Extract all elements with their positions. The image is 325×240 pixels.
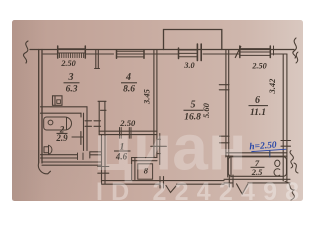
vent circle in room 7: [275, 160, 280, 166]
right outer wall: [283, 54, 287, 181]
svg-text:2.9: 2.9: [55, 133, 68, 143]
hall left wall: [102, 135, 106, 184]
svg-text:2.5: 2.5: [251, 167, 263, 177]
entrance arc bottom-left: [38, 164, 50, 174]
top outer wall lower line segments: [43, 53, 287, 55]
svg-text:5: 5: [191, 100, 196, 111]
svg-text:2.50: 2.50: [60, 59, 75, 68]
room 5 label 5/16.8: [184, 100, 204, 123]
partition room5/room6: [226, 50, 229, 158]
door ticks bathroom-hall: [85, 121, 101, 127]
blue note h=2.50: [249, 140, 287, 159]
top outer wall upper line: [30, 49, 294, 51]
left outer wall: [39, 50, 42, 164]
bathroom bottom wall: [41, 155, 78, 158]
bathtub: [44, 117, 72, 130]
vent square in room 3: [53, 96, 63, 106]
break squiggle left end of top wall: [23, 41, 28, 63]
closet 8 left wall: [132, 158, 135, 181]
outer lower-left edge wall: [42, 162, 102, 165]
svg-text:11.1: 11.1: [250, 108, 266, 118]
door jambs room4-hall: [120, 128, 132, 139]
window W6 (room 6): [240, 46, 274, 58]
bottom outer wall left segment: [102, 181, 225, 185]
svg-text:3.0: 3.0: [183, 61, 194, 70]
window W4 (room 4): [117, 50, 145, 58]
room 3 label 3/6.3: [64, 72, 80, 95]
svg-text:3: 3: [68, 72, 74, 83]
svg-text:3.42: 3.42: [267, 78, 277, 95]
entrance door swing flap: [166, 186, 176, 193]
room 6 bottom wall: [226, 153, 287, 156]
room 6 label 6/11.1: [249, 95, 269, 118]
svg-text:8.6: 8.6: [123, 85, 135, 95]
svg-text:6.3: 6.3: [66, 85, 78, 95]
door swing flap bottom right: [237, 184, 248, 194]
bottom right corner squiggle: [285, 182, 294, 201]
partition lower / hall top-left wall: [98, 101, 106, 134]
left edge shading of photo: [12, 20, 46, 201]
wall room3 bottom / bathroom top: [41, 107, 88, 113]
svg-text:3.45: 3.45: [142, 88, 152, 105]
door jambs bottom right: [229, 175, 233, 187]
svg-text:6: 6: [255, 95, 260, 106]
window W3 (room 3): [58, 46, 86, 58]
svg-text:2.50: 2.50: [251, 61, 266, 70]
photo of plan (pink paper): [12, 20, 303, 201]
svg-text:4: 4: [125, 72, 131, 83]
bathroom door leaf: [72, 132, 84, 145]
bathroom door jambs bottom: [78, 153, 84, 160]
room 7 label 7/2.5: [251, 158, 265, 177]
room 4 label 4/8.6: [121, 72, 137, 95]
room 2 label 2/2.9: [55, 124, 68, 143]
partition room4/room5 and corridor right wall: [154, 50, 157, 158]
right edge squiggle lower: [290, 151, 293, 169]
door frame corridor-room5: [157, 139, 161, 153]
svg-text:циан: циан: [94, 112, 247, 184]
door ticks room5/room6 upper: [219, 85, 229, 90]
partition room3/room4 upper: [95, 50, 100, 69]
room 7 left wall: [228, 156, 231, 177]
room 4 bottom wall: [99, 131, 157, 134]
watermark cian: [94, 112, 308, 207]
door ticks hall left wall: [98, 167, 109, 174]
right edge squiggle mid: [296, 52, 298, 63]
room 1 label 1/4.6: [114, 143, 131, 162]
door ticks room5/room6 lower: [220, 136, 230, 143]
bathroom right wall: [84, 107, 88, 151]
balcony outline: [164, 30, 222, 50]
bottom-left shading of photo: [12, 150, 92, 201]
balcony door swing (room 6): [235, 47, 241, 58]
closet 8 inner box: [138, 164, 153, 179]
door ticks right wall room 7: [281, 141, 291, 147]
entrance door jambs: [160, 177, 164, 189]
room 7 rounded box: [228, 157, 286, 177]
washbasin: [44, 145, 52, 154]
bottom outer wall right segment: [224, 179, 290, 183]
break squiggle right end of top wall: [293, 38, 297, 58]
closet 8 top wall: [132, 158, 157, 161]
window W5 (room 5, balcony door): [179, 44, 202, 61]
